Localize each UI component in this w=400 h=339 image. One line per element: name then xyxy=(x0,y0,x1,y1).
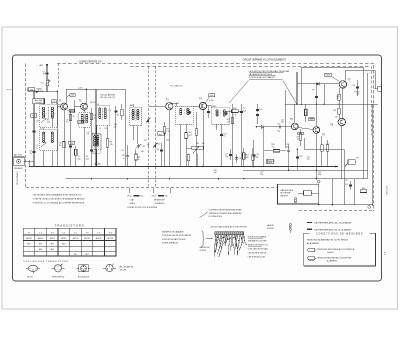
svg-text:C3: C3 xyxy=(36,145,38,147)
switch column stubs xyxy=(129,188,170,194)
wire accord down xyxy=(33,104,35,167)
label cables cuivre xyxy=(199,246,210,252)
transistor T5 xyxy=(292,123,299,130)
wire T4 collector xyxy=(207,106,212,108)
pcb detail caption xyxy=(210,226,247,229)
capacitor C14 xyxy=(156,148,163,152)
svg-text:LA LIAISON DU B.P. A LA: LA LIAISON DU B.P. A LA xyxy=(249,73,273,76)
wire L7 leads xyxy=(96,125,98,166)
label C8 xyxy=(87,134,89,136)
wire T4 emitter xyxy=(202,110,204,167)
svg-text:R8: R8 xyxy=(138,157,140,159)
svg-text:R6: R6 xyxy=(117,115,119,117)
svg-text:C9: C9 xyxy=(99,128,101,130)
right margin rotated text xyxy=(385,186,387,195)
pinout AC xyxy=(77,265,91,272)
svg-text:R23: R23 xyxy=(362,188,365,190)
svg-text:CIRCUIT IMPRIME VU COTE EL: CIRCUIT IMPRIME VU COTE ELEMENTS xyxy=(242,59,286,61)
svg-text:PRISE ANT.: PRISE ANT. xyxy=(14,167,24,170)
wire C14 branch xyxy=(161,143,163,167)
svg-text:470: 470 xyxy=(70,143,73,145)
wire T3 collector xyxy=(172,103,177,106)
coil box L3 xyxy=(40,128,58,151)
detector diode 2 xyxy=(235,155,241,164)
voltage callout T4 xyxy=(205,94,214,103)
svg-text:AC126: AC126 xyxy=(84,237,90,240)
svg-text:TC2: TC2 xyxy=(32,116,35,118)
svg-text:AF115: AF115 xyxy=(50,237,55,240)
pcb detail bar xyxy=(215,232,244,235)
switch lever 2 xyxy=(153,143,157,148)
audio box left edge xyxy=(284,90,286,148)
oscillator coil box L6 xyxy=(96,104,110,126)
pcb detail traces xyxy=(214,235,247,257)
label C24b xyxy=(318,172,322,176)
transistors table row4 xyxy=(74,254,89,256)
exemple arrow xyxy=(206,238,213,239)
wire C1 to R1 xyxy=(46,76,48,80)
svg-text:L6: L6 xyxy=(97,104,99,106)
svg-text:1,4k: 1,4k xyxy=(227,122,230,124)
junction T1 emitter bus xyxy=(63,166,65,168)
label cadre po xyxy=(36,88,43,93)
capacitor C4b xyxy=(33,129,36,133)
wire R10 xyxy=(185,139,187,167)
svg-text:C17: C17 xyxy=(239,158,242,160)
wire T2 base xyxy=(74,100,81,113)
wire transformer leads xyxy=(330,70,345,178)
oscillator resistor R6 xyxy=(117,109,123,116)
svg-text:5n: 5n xyxy=(123,158,125,160)
svg-text:EXEMPLE DE CABLAGE: EXEMPLE DE CABLAGE xyxy=(162,231,184,234)
svg-text:SFT: SFT xyxy=(85,254,88,256)
svg-text:C18: C18 xyxy=(256,154,259,156)
svg-text:C20: C20 xyxy=(281,120,284,122)
pcb outline bottom-right dashed line xyxy=(299,210,375,212)
svg-text:C12: C12 xyxy=(142,146,145,148)
svg-text:LE POINT (F) PEUT ETRE RACCORD: LE POINT (F) PEUT ETRE RACCORDE PAR xyxy=(249,70,290,73)
resistor R15b xyxy=(252,148,254,167)
label CADRE FERRITE GO xyxy=(79,61,102,64)
trimmer TC1 block xyxy=(40,80,50,86)
svg-text:COFFRET RECEPTEUR RELIE PAR: COFFRET RECEPTEUR RELIE PAR xyxy=(209,209,243,212)
left margin rotated text xyxy=(15,172,17,185)
svg-text:C11: C11 xyxy=(121,150,124,152)
label T6 xyxy=(322,133,325,136)
svg-text:R11: R11 xyxy=(189,132,192,134)
svg-text:A LAMPES: A LAMPES xyxy=(327,259,338,262)
svg-text:C23: C23 xyxy=(299,156,302,158)
resistor R18 xyxy=(304,109,307,116)
label R16 xyxy=(272,144,275,148)
svg-text:VUE REPEREE AVEC (B) - A LA MA: VUE REPEREE AVEC (B) - A LA MASSE xyxy=(314,229,352,232)
svg-text:L1: L1 xyxy=(41,103,43,105)
svg-text:SUR AMOVI. DU REP.: SUR AMOVI. DU REP. xyxy=(248,239,267,242)
svg-text:C10: C10 xyxy=(104,128,107,130)
capacitor C18 xyxy=(252,140,258,167)
svg-text:A LA MASSE: A LA MASSE xyxy=(307,242,320,245)
svg-text:C12: C12 xyxy=(144,140,147,142)
svg-text:PLAGE (DETAILS): PLAGE (DETAILS) xyxy=(162,241,178,244)
svg-text:POSITION L1 L2 L3 RELIES AU CO: POSITION L1 L2 L3 RELIES AU COFFRET RECE… xyxy=(33,201,85,204)
voltage callout T5 xyxy=(298,132,303,135)
label T5 xyxy=(290,118,293,121)
svg-text:R7: R7 xyxy=(110,142,112,144)
resistor R7 xyxy=(106,139,113,148)
label FI 480 xyxy=(171,86,183,88)
svg-text:CONTACTS VUS COTE SOUDURES: CONTACTS VUS COTE SOUDURES xyxy=(127,206,158,209)
band switch dashed line 1 xyxy=(147,66,149,187)
junction speaker bus 1 xyxy=(317,180,320,205)
pinout label 3 xyxy=(78,275,89,278)
wire below box 2 xyxy=(344,179,346,205)
svg-text:FI = 480 kc/s: FI = 480 kc/s xyxy=(171,86,183,88)
transistor T7 xyxy=(339,81,346,88)
svg-text:C14: C14 xyxy=(156,149,159,151)
wire T7 T8 couple xyxy=(341,88,343,118)
label C22 xyxy=(307,157,310,161)
mixer coupling dashed box xyxy=(79,112,90,127)
svg-text:(GO): (GO) xyxy=(152,196,156,198)
pcb outline second dashed line xyxy=(130,65,369,67)
svg-text:C14: C14 xyxy=(157,144,160,146)
supply bus node 1 xyxy=(33,91,34,92)
label R11v xyxy=(189,135,192,137)
svg-text:R18: R18 xyxy=(305,113,308,115)
svg-text:6,8k: 6,8k xyxy=(166,140,169,142)
resistor R4 xyxy=(90,113,96,119)
label AM2 xyxy=(176,102,179,105)
resistor R21 xyxy=(338,108,340,114)
junction speaker bus 3 xyxy=(332,204,334,206)
svg-text:CABLES DE: CABLES DE xyxy=(199,246,210,249)
capacitor C1 xyxy=(42,71,48,75)
svg-text:AC126 AC128: AC126 AC128 xyxy=(78,275,89,278)
svg-text:AF2: AF2 xyxy=(51,243,54,246)
resistor R14 box xyxy=(267,159,274,164)
wire below box 3 xyxy=(354,179,356,205)
antenna node dot xyxy=(46,64,48,66)
transistor T4 xyxy=(199,102,206,109)
conditions checkbox 2 xyxy=(308,257,317,260)
audio box right edge xyxy=(367,73,369,179)
transistor T1 xyxy=(61,103,68,110)
svg-text:TRESSE ET FIXATION A LA MASS: TRESSE ET FIXATION A LA MASSE xyxy=(209,212,242,215)
svg-text:AF116: AF116 xyxy=(26,237,31,240)
voltage callout T7 xyxy=(325,73,340,82)
conditions box xyxy=(304,233,376,266)
label tr out xyxy=(356,157,358,159)
svg-text:1k: 1k xyxy=(138,159,140,161)
conditions text 2 xyxy=(317,256,352,262)
svg-text:100: 100 xyxy=(335,117,338,119)
svg-text:D'UNITE: D'UNITE xyxy=(267,228,275,230)
svg-text:25µ: 25µ xyxy=(225,156,228,158)
svg-text:C4: C4 xyxy=(29,151,31,153)
transistors table grid xyxy=(23,228,116,256)
svg-text:8,2k: 8,2k xyxy=(86,158,89,160)
bias network xyxy=(312,84,325,105)
capacitor C15b xyxy=(216,124,226,166)
label C16v xyxy=(243,108,245,110)
boxed label TC2 xyxy=(31,114,37,118)
svg-text:CV1: CV1 xyxy=(36,121,39,123)
svg-text:AC126: AC126 xyxy=(73,237,79,240)
coffret arrow xyxy=(199,212,207,217)
svg-text:R15: R15 xyxy=(246,155,249,157)
svg-text:0,1: 0,1 xyxy=(36,147,38,149)
resistor R2 xyxy=(59,142,65,148)
right margin rotated text 2 xyxy=(383,252,385,255)
label osc C xyxy=(99,128,107,130)
transistors table row1 xyxy=(26,237,113,240)
antenna bus xyxy=(34,90,58,92)
svg-text:3,3k: 3,3k xyxy=(233,114,236,116)
svg-text:3W. SPE: 3W. SPE xyxy=(120,269,128,271)
wire T6 collector xyxy=(315,104,317,126)
wire audio lower xyxy=(264,144,289,170)
pcb outline left dashed line xyxy=(25,64,27,188)
svg-text:AF1: AF1 xyxy=(27,243,30,246)
svg-text:VUE REPEREE AVEC (B) + A LA MA: VUE REPEREE AVEC (B) + A LA MASSE xyxy=(314,222,353,225)
svg-text:C17: C17 xyxy=(225,154,228,156)
svg-text:HP: HP xyxy=(356,157,358,159)
chassis bus lower xyxy=(66,178,368,180)
svg-text:CADRE FERRITE GO: CADRE FERRITE GO xyxy=(79,61,102,64)
transistors table header xyxy=(28,232,113,234)
label C13v xyxy=(123,158,125,160)
svg-text:50µ: 50µ xyxy=(256,157,259,159)
svg-text:CUIVRE: CUIVRE xyxy=(199,250,207,252)
leader from note to audio point xyxy=(283,81,297,105)
svg-text:VALEUR: VALEUR xyxy=(267,224,275,227)
svg-text:10µ: 10µ xyxy=(277,131,280,133)
oscillator coil box L7 xyxy=(92,133,102,150)
svg-text:50µ: 50µ xyxy=(78,158,81,160)
svg-text:47: 47 xyxy=(188,135,190,137)
svg-text:2,2k: 2,2k xyxy=(47,122,50,124)
svg-text:C20: C20 xyxy=(277,123,280,125)
series caps C19 xyxy=(256,104,262,124)
wire speaker right xyxy=(372,104,374,204)
conditions line 1 xyxy=(307,239,349,245)
output transformer box xyxy=(344,160,355,167)
vue line 2 xyxy=(307,229,352,232)
exemple brace xyxy=(202,231,205,248)
svg-text:PO-GO (L6 L7): PO-GO (L6 L7) xyxy=(100,97,115,99)
bus junction b xyxy=(91,178,318,180)
resistor R11 xyxy=(189,129,198,135)
padder trimmer CV2 xyxy=(136,144,146,149)
switch lever 1 xyxy=(146,118,150,123)
wire into cable box xyxy=(318,184,320,205)
wire R18 xyxy=(305,104,307,122)
svg-text:AC128: AC128 xyxy=(96,237,102,240)
svg-text:SFT: SFT xyxy=(74,254,77,256)
voltage callout T1 collector xyxy=(66,94,75,98)
svg-text:5n: 5n xyxy=(30,153,32,155)
label R4v xyxy=(0,0,1,1)
wire R4 branch xyxy=(91,108,93,167)
coil box L1 L2 xyxy=(40,103,58,128)
oscillator box xyxy=(96,89,126,166)
volume potentiometer xyxy=(192,143,205,153)
svg-text:LES POINTS (C) (F): LES POINTS (C) (F) xyxy=(248,256,266,258)
wire R21 xyxy=(338,104,340,119)
svg-text:10k: 10k xyxy=(202,143,205,145)
variable capacitor CV1 xyxy=(36,121,39,123)
svg-text:10k: 10k xyxy=(246,157,249,159)
svg-text:TENSION D'ALIMENTATION 12V: TENSION D'ALIMENTATION 12V ET REGLE xyxy=(307,239,349,242)
conditions checkbox 1 xyxy=(308,248,315,251)
label AM3 xyxy=(212,105,215,108)
wire R20 xyxy=(322,136,328,166)
wire jack to circuit xyxy=(24,161,34,166)
svg-text:AC128: AC128 xyxy=(108,237,114,240)
voltage callout T1 emitter xyxy=(67,109,75,112)
wire TC1 to bus xyxy=(46,86,48,92)
transistors table row3 xyxy=(28,248,111,251)
note pour plus 6 lines xyxy=(248,235,269,258)
label 68k xyxy=(166,140,169,142)
pcb outline right dashed line xyxy=(373,65,375,211)
svg-text:+0,25V: +0,25V xyxy=(209,100,214,102)
wire T1 base xyxy=(58,91,61,166)
resistor R13 xyxy=(227,117,234,123)
svg-text:VERS HP: VERS HP xyxy=(280,195,289,197)
label C3 xyxy=(36,145,38,149)
pinout label 2 xyxy=(52,276,65,278)
svg-text:A PA V: A PA V xyxy=(130,202,136,205)
svg-text:( DISTANCE ): ( DISTANCE ) xyxy=(154,202,166,205)
fold tick left xyxy=(6,89,13,91)
pinout out xyxy=(103,263,116,271)
mixer L5 box xyxy=(87,132,100,153)
wire detector down xyxy=(263,127,265,167)
svg-text:750: 750 xyxy=(272,146,275,148)
svg-text:L7: L7 xyxy=(92,133,94,135)
svg-text:LICENCE RT 234: LICENCE RT 234 xyxy=(15,172,17,185)
resistor R16h xyxy=(273,150,280,153)
note noyaux 3 lines xyxy=(33,193,85,204)
svg-text:I GA I: I GA I xyxy=(130,199,135,202)
svg-text:R1: R1 xyxy=(47,120,49,122)
svg-text:AF116: AF116 xyxy=(38,237,43,240)
junction speaker bus 2 xyxy=(368,204,374,209)
note exemple 4 lines xyxy=(162,231,192,245)
svg-text:DE TRESSE: DE TRESSE xyxy=(280,193,291,195)
wire bus to L1 xyxy=(33,91,35,99)
label T4 xyxy=(199,99,202,101)
svg-text:16: 16 xyxy=(43,74,45,76)
oscillator cap C9 xyxy=(109,109,118,113)
svg-text:5n: 5n xyxy=(243,108,245,110)
svg-text:AF3: AF3 xyxy=(51,248,54,251)
svg-text:LES MOTIFS SUR LE: LES MOTIFS SUR LE xyxy=(248,252,267,254)
transistor T3 xyxy=(166,103,173,110)
transistor T2 xyxy=(81,103,88,110)
capacitor C4 xyxy=(29,150,35,155)
wire R11 branch xyxy=(196,112,198,167)
T3 base components xyxy=(158,132,164,135)
junction dots audio xyxy=(185,149,317,171)
svg-text:LES NOYAUX DES BOBINAGES SONT: LES NOYAUX DES BOBINAGES SONT REGLES DU … xyxy=(33,193,82,196)
svg-text:180: 180 xyxy=(141,151,144,153)
cable blinde box xyxy=(278,184,319,204)
wire IF1 leads xyxy=(133,104,138,144)
capacitor C20 series xyxy=(277,123,282,132)
svg-text:R21: R21 xyxy=(333,110,336,112)
wire T3 emitter xyxy=(168,110,170,167)
label C10 xyxy=(114,124,117,128)
wire T1 emitter down xyxy=(63,110,65,167)
frame jack right xyxy=(375,86,382,91)
switch table right col xyxy=(152,196,169,206)
detector diode xyxy=(256,125,268,128)
label ANT xyxy=(39,64,43,67)
pinout SFT xyxy=(52,264,65,272)
pcb outline top dashed line xyxy=(57,63,375,65)
coil L1 tap wires xyxy=(44,98,53,128)
capacitor C24 xyxy=(345,181,352,190)
svg-text:25: 25 xyxy=(66,122,68,124)
label CIRCUIT IMPRIME xyxy=(242,59,286,61)
capacitor C13 xyxy=(122,154,129,158)
wire R8 branch xyxy=(135,150,137,167)
label R12v xyxy=(233,114,236,116)
wire T2 collector xyxy=(86,89,87,104)
svg-text:+1,2V: +1,2V xyxy=(78,87,84,89)
svg-text:R9: R9 xyxy=(166,129,168,131)
wire R19 xyxy=(338,88,340,104)
svg-text:0,25: 0,25 xyxy=(210,95,213,97)
resistor R20b xyxy=(326,144,329,151)
resistor R12 horizontal xyxy=(232,108,239,113)
label sorties xyxy=(23,260,68,263)
label R8v xyxy=(138,159,140,161)
svg-text:AF1: AF1 xyxy=(39,243,42,246)
resistor R17 xyxy=(299,134,302,140)
svg-text:(PO): (PO) xyxy=(128,196,132,198)
svg-text:ANT. VOIT.: ANT. VOIT. xyxy=(14,154,23,157)
svg-text:C16: C16 xyxy=(243,111,246,113)
band switch dashed line 2 xyxy=(154,66,156,187)
boxed label c1j2b xyxy=(78,120,84,123)
svg-text:TENSIONS RELEVEES AU VOLTMETRE: TENSIONS RELEVEES AU VOLTMETRE xyxy=(317,248,355,251)
svg-text:POUR ETRE BATTUS SUR: POUR ETRE BATTUS SUR xyxy=(162,238,186,241)
transistors table title xyxy=(55,223,85,227)
bus junction a xyxy=(63,166,254,168)
pcb inner right dashed line xyxy=(371,66,373,135)
leader from note to detector xyxy=(229,81,249,104)
svg-text:TRANSISTORS: TRANSISTORS xyxy=(55,223,85,227)
wire avc vertical xyxy=(232,104,234,167)
label C17b xyxy=(260,172,263,176)
capacitor C6 xyxy=(90,148,96,153)
svg-text:15k: 15k xyxy=(94,141,97,143)
svg-text:AFL.LND ARR HP: AFL.LND ARR HP xyxy=(120,265,135,268)
IF transformer 2 xyxy=(175,106,193,124)
cable jack symbol xyxy=(295,191,319,203)
wire L3 down xyxy=(44,151,53,167)
wire T5 base xyxy=(268,126,292,128)
IF transformer 1 can xyxy=(129,104,141,126)
svg-text:CIRCUIT RACCORDE AU COTE OPPOS: CIRCUIT RACCORDE AU COTE OPPOSE xyxy=(210,226,247,229)
svg-text:C7: C7 xyxy=(66,120,68,122)
capacitor C21 xyxy=(286,144,290,153)
svg-text:C27: C27 xyxy=(356,94,359,96)
conditions title xyxy=(316,233,363,236)
